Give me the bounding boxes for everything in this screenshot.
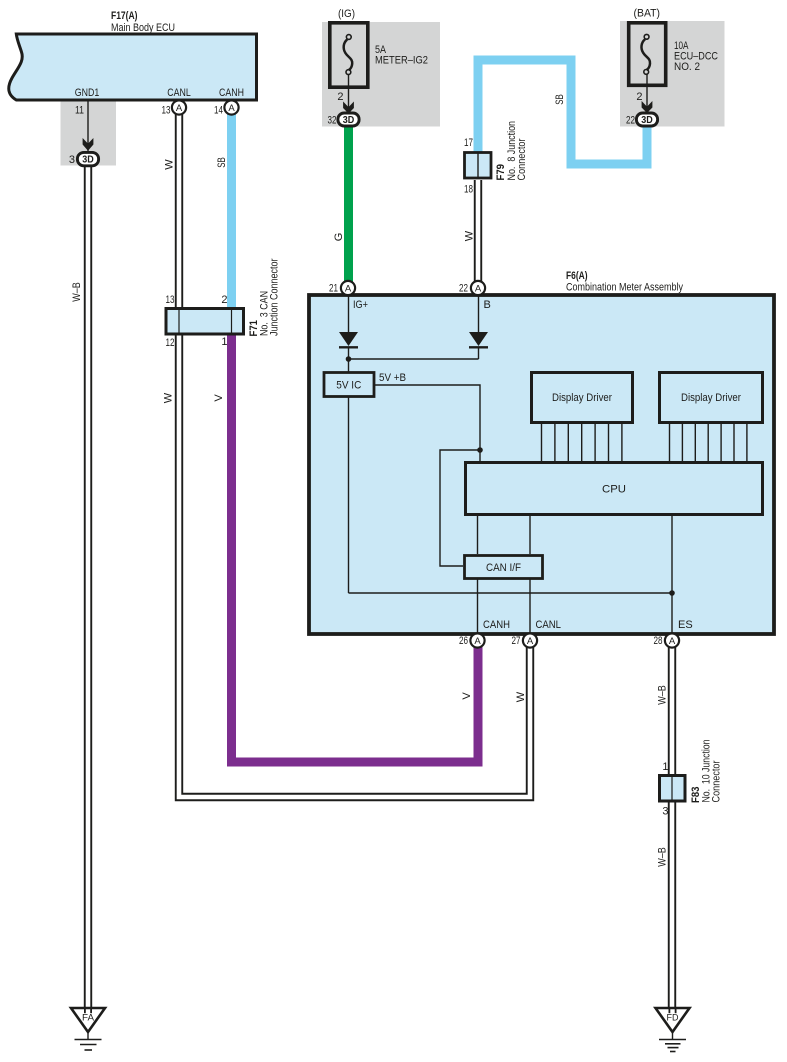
wire 5V +B from 5V IC to CPU with node [374,385,483,566]
display driver 1 bus lines [542,423,622,461]
svg-text:W: W [163,392,175,403]
svg-text:CANL: CANL [167,87,191,99]
pin 22 circle A (meter B) [471,281,485,295]
svg-text:NO. 2: NO. 2 [674,61,700,73]
pin number 13 [162,105,171,117]
3D connector ellipse (GND1) [77,152,98,165]
wire label W-B (ES upper) [657,685,669,705]
svg-text:2: 2 [337,91,343,103]
pin number 2 (IG fuse) [337,91,343,103]
svg-text:3: 3 [662,806,668,818]
junction connector F79 box [465,153,492,179]
svg-text:F17(A): F17(A) [111,10,138,22]
label (BAT) [634,8,661,20]
label IG+ [353,299,368,311]
wire from IG fuse to 3D with arrow [343,75,354,114]
pin number 21 [329,283,338,295]
wire 5V IC to ES line [349,397,675,596]
wire label W (CANL upper) [164,159,176,170]
3D connector ellipse (BAT) [636,113,657,126]
svg-text:Connector: Connector [516,138,528,180]
svg-text:27: 27 [512,635,521,647]
svg-text:Combination Meter Assembly: Combination Meter Assembly [566,282,683,294]
wire label SB (BAT) [554,94,566,105]
pin number 18 (F79) [464,184,473,196]
wire W CANL from F71 to pin 27 (double line L path) [179,334,530,797]
svg-text:13: 13 [166,294,175,306]
wire GND1 pin 11 to 3D connector [87,101,89,153]
svg-text:V: V [461,692,473,700]
wire label V (pin 26) [461,692,473,700]
svg-text:3D: 3D [82,155,94,166]
shield gray panel behind GND1 connector [61,101,117,166]
wire CPU to CAN I/F (CANL) [529,516,531,554]
wire CPU to CAN I/F (CANH) [477,516,479,554]
label F6(A) Combination Meter Assembly [566,270,683,294]
pin number 13 (F71) [166,294,175,306]
pin number 22 (meter) [459,283,468,295]
pin number 3 [69,154,75,166]
svg-text:2: 2 [221,294,227,306]
svg-text:METER–IG2: METER–IG2 [375,55,428,67]
main body ECU F17(A) box [9,34,257,100]
pin number 32 [328,115,337,127]
wire W from F79 pin 18 to meter pin 22 (double line) [474,180,482,283]
svg-text:1: 1 [662,761,668,773]
svg-text:28: 28 [654,635,663,647]
pin number 17 (F79) [464,137,473,149]
svg-text:5V IC: 5V IC [336,380,361,392]
wire V CANH from F71 to pin 26 [232,334,479,762]
5V IC box [324,373,374,397]
label F83 No. 10 Junction Connector [690,740,723,804]
CAN I/F box [465,556,543,579]
label FA [82,1013,95,1024]
svg-text:B: B [484,299,491,311]
shield gray panel behind IG fuse [322,22,440,127]
svg-text:A: A [474,636,481,647]
wire IG+ pin 21 to diode D1 [348,295,350,333]
pin number 12 (F71) [166,337,175,349]
wire label W (F79) [464,230,476,241]
wire CPU to pin 28 ES [671,516,673,634]
junction connector F71 box [166,309,244,335]
svg-text:IG+: IG+ [353,299,368,311]
svg-text:Display Driver: Display Driver [681,392,741,404]
pin number 2 (F71) [221,294,227,306]
CPU box [466,463,763,515]
wire label V (below F71) [213,394,225,402]
wire diode D1 to 5V IC with junction node [346,347,479,372]
svg-text:A: A [176,103,183,114]
wire label W (pin 27) [515,691,527,702]
pin 14 circle A (ECU CANH) [224,100,238,114]
svg-text:13: 13 [162,105,171,117]
svg-text:A: A [669,636,676,647]
fuse rect 5A METER-IG2 [330,23,368,87]
svg-text:3D: 3D [343,115,355,126]
ground FD symbol [656,1008,690,1052]
wire SB from BAT 3D to F79 junction [478,60,647,164]
svg-text:FD: FD [667,1013,679,1024]
svg-text:12: 12 [166,337,175,349]
svg-text:CANH: CANH [483,619,510,631]
svg-text:CPU: CPU [602,484,626,496]
3D connector ellipse (IG) [338,113,359,126]
svg-text:W: W [164,159,176,170]
diode D2 [469,332,488,347]
svg-text:2: 2 [636,91,642,103]
svg-text:G: G [333,233,345,242]
svg-text:F6(A): F6(A) [566,270,588,282]
wire B pin 22 to diode D2 [478,295,480,333]
svg-text:W: W [464,230,476,241]
label GND1 [75,87,100,99]
wire CAN I/F to pin 26 CANH [477,579,479,634]
svg-text:SB: SB [554,94,566,105]
svg-text:Display Driver: Display Driver [552,392,612,404]
pin 26 circle A (meter CANH) [470,633,484,647]
svg-text:14: 14 [214,105,223,117]
svg-text:Main Body ECU: Main Body ECU [111,22,175,34]
diode D1 [339,332,358,347]
svg-text:W–B: W–B [71,282,83,302]
svg-text:(BAT): (BAT) [634,8,661,20]
svg-text:ES: ES [678,619,693,631]
wire label G [333,233,345,242]
label B [484,299,491,311]
svg-text:5V +B: 5V +B [379,372,406,384]
svg-text:18: 18 [464,184,473,196]
pin number 11 [75,105,84,117]
svg-text:A: A [475,284,482,295]
display driver 2 box [660,373,763,423]
pin 28 circle A (meter ES) [665,633,679,647]
svg-text:W–B: W–B [657,685,669,705]
svg-text:32: 32 [328,115,337,127]
arrow into 3D (GND1) [83,138,94,151]
pin number 28 [654,635,663,647]
pin number 1 (F71) [221,336,227,348]
svg-text:CAN I/F: CAN I/F [486,562,521,574]
label ES (inside) [678,619,693,631]
svg-text:SB: SB [216,157,228,168]
svg-text:W: W [515,691,527,702]
label 5V +B [379,372,406,384]
svg-text:GND1: GND1 [75,87,100,99]
pin 21 circle A (meter IG+) [341,281,355,295]
label F79 No. 8 Junction Connector [495,121,528,181]
svg-text:(IG): (IG) [338,8,355,20]
wire W-B ES from pin 28 to F83 (double line) [668,645,676,776]
svg-text:Junction Connector: Junction Connector [269,258,281,336]
pin number 14 [214,105,223,117]
label 5A METER-IG2 [375,44,428,67]
svg-text:17: 17 [464,137,473,149]
ground FA symbol [71,1008,105,1050]
pin number 3 (F83) [662,806,668,818]
display driver 2 bus lines [670,423,747,461]
wire label W-B (below F83) [657,847,669,867]
svg-text:3D: 3D [641,115,653,126]
svg-text:26: 26 [459,635,468,647]
svg-text:21: 21 [329,283,338,295]
svg-text:CANH: CANH [219,87,244,99]
wire from BAT fuse to 3D with arrow [642,74,653,114]
label 10A ECU-DCC NO. 2 [674,40,718,73]
pin 27 circle A (meter CANL) [523,633,537,647]
svg-text:1: 1 [221,336,227,348]
label CANL (inside) [536,619,562,631]
pin number 22 (BAT 3D) [626,115,635,127]
wire W-B from 3D to ground FA (double line) [84,166,92,1010]
svg-text:Connector: Connector [711,760,723,802]
fuse rect 10A ECU-DCC [629,23,666,86]
shield gray panel behind BAT fuse [620,21,725,127]
label CANL [167,87,191,99]
wire label W-B left [71,282,83,302]
svg-text:11: 11 [75,105,84,117]
label CANH (inside) [483,619,510,631]
label F17(A) Main Body ECU [111,10,175,34]
junction connector F83 box [660,776,686,802]
svg-text:A: A [228,103,235,114]
svg-text:W–B: W–B [657,847,669,867]
svg-text:22: 22 [626,115,635,127]
label CANH [219,87,244,99]
svg-text:3: 3 [69,154,75,166]
pin 13 circle A (ECU CANL) [172,100,186,114]
wire G from 3D to meter pin 21 [344,126,353,283]
svg-text:22: 22 [459,283,468,295]
display driver 1 box [532,373,633,423]
wire CAN I/F to pin 27 CANL [529,579,531,634]
wire W CANL from pin 13 to F71 (double line) [175,114,183,309]
combination meter assembly F6(A) box [309,295,774,634]
svg-text:FA: FA [82,1013,95,1024]
wire W-B from F83 to ground FD (double line) [668,801,676,1010]
label F71 No. 3 CAN Junction Connector [248,258,281,336]
wire SB CANH from pin 14 to F71 [227,114,236,309]
pin number 2 (BAT fuse) [636,91,642,103]
svg-text:CANL: CANL [536,619,562,631]
label FD [667,1013,679,1024]
svg-text:V: V [213,394,225,402]
wire label SB (CANH upper) [216,157,228,168]
svg-text:A: A [345,284,352,295]
pin number 26 [459,635,468,647]
pin number 27 [512,635,521,647]
label (IG) [338,8,355,20]
svg-text:A: A [527,636,534,647]
wire label W (below F71) [163,392,175,403]
pin number 1 (F83) [662,761,668,773]
